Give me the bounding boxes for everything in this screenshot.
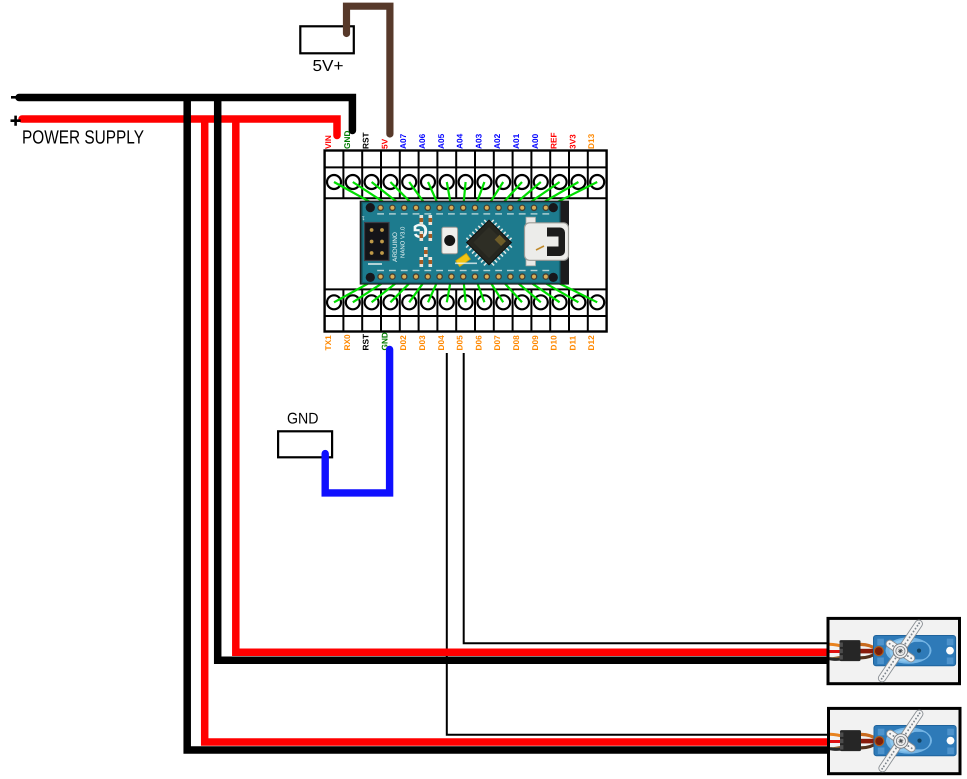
Arduino Nano U1 (board photo) [360, 201, 569, 285]
svg-text:A03: A03 [473, 133, 483, 149]
svg-text:A02: A02 [492, 133, 502, 149]
wire: signal D05 to servo M1 (thin black) [464, 353, 832, 643]
power supply plus terminal mark [11, 116, 21, 126]
green connection traces terminal-to-nano [334, 182, 597, 302]
screw terminal adapter block outline [325, 151, 607, 332]
power supply minus terminal mark [11, 96, 19, 99]
node box GND [278, 431, 332, 457]
servo M2 [829, 702, 961, 779]
svg-text:D02: D02 [398, 335, 408, 351]
svg-text:3V3: 3V3 [567, 134, 577, 149]
wire: power supply positive (red) bus to VIN pin [22, 119, 337, 136]
svg-text:D07: D07 [492, 335, 502, 351]
svg-text:5V: 5V [379, 138, 389, 149]
svg-text:D08: D08 [511, 335, 521, 351]
svg-text:TX1: TX1 [323, 335, 333, 351]
svg-text:D10: D10 [549, 335, 559, 351]
svg-text:D12: D12 [586, 335, 596, 351]
wire: blue GND pin to GND box [325, 350, 389, 493]
svg-text:POWER SUPPLY: POWER SUPPLY [22, 128, 144, 149]
wire: signal D04 to servo M2 (thin black) [447, 353, 832, 735]
wire: brown 5V from 5V+ box to 5V pin [347, 6, 390, 134]
wire: red branch to servo M1 [236, 117, 832, 652]
svg-text:RST: RST [361, 132, 371, 149]
svg-text:ARDUINO: ARDUINO [392, 232, 399, 262]
svg-text:A05: A05 [436, 133, 446, 149]
svg-text:A00: A00 [530, 133, 540, 149]
svg-text:D13: D13 [586, 133, 596, 149]
svg-text:D03: D03 [417, 335, 427, 351]
svg-text:A04: A04 [455, 133, 465, 149]
svg-text:D05: D05 [455, 335, 465, 351]
svg-text:D04: D04 [436, 335, 446, 351]
svg-text:RST: RST [361, 334, 371, 351]
wire: power supply negative (black) bus to GND pin [19, 98, 352, 131]
svg-text:NANO V3.0: NANO V3.0 [400, 226, 407, 258]
svg-text:A07: A07 [398, 133, 408, 149]
svg-text:A01: A01 [511, 133, 521, 149]
svg-text:A06: A06 [417, 133, 427, 149]
svg-text:D11: D11 [567, 335, 577, 350]
svg-text:5V+: 5V+ [313, 58, 344, 75]
svg-text:D06: D06 [473, 335, 483, 351]
svg-text:1: 1 [362, 215, 365, 221]
wire: black branch to servo M2 [187, 95, 832, 750]
svg-text:D09: D09 [530, 335, 540, 351]
svg-text:GND: GND [342, 131, 352, 149]
svg-text:VIN: VIN [323, 135, 333, 149]
screw terminals (top and bottom rows) [327, 175, 604, 309]
svg-text:GND: GND [287, 410, 319, 427]
wire: red branch to servo M2 [205, 116, 832, 742]
svg-text:REF: REF [549, 132, 559, 149]
svg-text:RX0: RX0 [342, 334, 352, 351]
node box 5V+ [300, 26, 354, 53]
wire: black branch to servo M1 [218, 95, 832, 660]
servo M1 [828, 612, 960, 691]
